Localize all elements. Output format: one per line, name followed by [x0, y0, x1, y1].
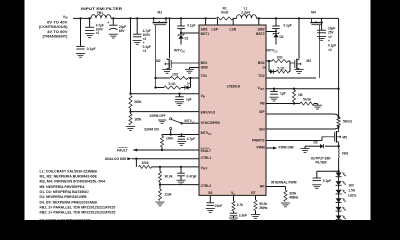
svg-text:CTRL1: CTRL1 [201, 156, 212, 160]
svg-text:6mΩ: 6mΩ [221, 10, 229, 14]
svg-text:CTRL2: CTRL2 [201, 184, 212, 188]
svg-text:D2: D2 [280, 35, 284, 39]
svg-text:(TRANSIENT): (TRANSIENT) [43, 35, 68, 39]
svg-text:1.5A: 1.5A [348, 188, 355, 192]
svg-text:4.7k: 4.7k [237, 203, 243, 207]
svg-text:100k: 100k [141, 161, 148, 165]
svg-text:165k: 165k [134, 118, 141, 122]
svg-text:M3, M4: INFINEON IPZ40N04S5L-7: M3, M4: INFINEON IPZ40N04S5L-7R4 [40, 180, 106, 184]
svg-text:SYNC/SPRD: SYNC/SPRD [201, 121, 221, 125]
svg-text:113k: 113k [165, 192, 172, 196]
svg-text:D1, D2: NEXPERIA BAT46WJ: D1, D2: NEXPERIA BAT46WJ [40, 190, 89, 194]
svg-text:4.7µF: 4.7µF [187, 137, 195, 141]
svg-text:90.9k: 90.9k [165, 175, 173, 179]
svg-text:M1, M2: NEXPERIA BUK9M42-60E: M1, M2: NEXPERIA BUK9M42-60E [40, 175, 98, 179]
svg-text:BST1: BST1 [201, 32, 210, 36]
svg-text:SW1: SW1 [201, 28, 208, 32]
svg-text:3.3nF: 3.3nF [239, 214, 247, 218]
svg-text:54.9k: 54.9k [303, 98, 311, 102]
svg-text:LT8391A: LT8391A [227, 84, 241, 88]
svg-text:D4: D4 [187, 81, 191, 85]
svg-text:FB1: 2× PARALLEL TDK MPZ2012S2: FB1: 2× PARALLEL TDK MPZ2012S221AT025 [40, 205, 116, 209]
svg-text:56mΩ: 56mΩ [343, 120, 352, 124]
svg-text:INTERNAL PWM: INTERNAL PWM [271, 180, 297, 184]
svg-text:BST2: BST2 [256, 32, 265, 36]
svg-text:×2: ×2 [328, 48, 332, 52]
svg-text:0.47µF: 0.47µF [187, 174, 197, 178]
svg-text:ISP: ISP [259, 110, 265, 114]
svg-text:63V: 63V [119, 29, 126, 33]
svg-text:TG1: TG1 [201, 74, 208, 78]
svg-text:380k: 380k [134, 100, 141, 104]
svg-text:EN/UVLO: EN/UVLO [201, 110, 216, 114]
svg-text:M1: M1 [157, 11, 162, 15]
svg-text:ANALOG DIM: ANALOG DIM [105, 157, 126, 161]
svg-text:0.1µF: 0.1µF [323, 179, 331, 183]
svg-text:100k: 100k [166, 137, 173, 141]
svg-text:LEDs: LEDs [348, 194, 356, 198]
svg-text:PWM: PWM [257, 146, 265, 150]
svg-text:5.1Ω: 5.1Ω [278, 66, 285, 70]
svg-text:ISN: ISN [259, 128, 265, 132]
svg-text:D5: D5 [263, 66, 267, 70]
svg-text:488Hz: 488Hz [289, 196, 299, 200]
svg-text:M5: NEXPERIA PMV50EPEA: M5: NEXPERIA PMV50EPEA [40, 185, 86, 189]
svg-text:(CONTINUOUS): (CONTINUOUS) [39, 25, 68, 29]
svg-text:1µF: 1µF [280, 92, 286, 96]
svg-text:10Ω: 10Ω [276, 55, 283, 59]
svg-text:LSP: LSP [212, 28, 219, 32]
svg-text:D3: D3 [314, 141, 318, 145]
svg-text:FB2: 2× PARALLEL TDK MPZ2012S1: FB2: 2× PARALLEL TDK MPZ2012S102AT025 [40, 211, 116, 215]
svg-text:1M: 1M [298, 93, 303, 97]
svg-text:D1: D1 [185, 36, 189, 40]
svg-text:PWM DIM: PWM DIM [279, 146, 294, 150]
svg-text:SSFM ON: SSFM ON [144, 127, 159, 131]
svg-text:FB2: FB2 [342, 152, 348, 156]
svg-text:FAULT: FAULT [201, 149, 211, 153]
svg-text:M3: M3 [307, 59, 312, 63]
svg-text:0.1µF: 0.1µF [187, 24, 195, 28]
svg-text:D6: EVERLIGHT PMEG2010AEB: D6: EVERLIGHT PMEG2010AEB [40, 218, 92, 220]
svg-text:SSFM OFF: SSFM OFF [149, 114, 165, 118]
svg-text:22nF: 22nF [215, 204, 222, 208]
svg-text:BG1: BG1 [201, 61, 208, 65]
svg-text:D3: NEXPERIA PMEG3010EB: D3: NEXPERIA PMEG3010EB [40, 195, 88, 199]
svg-text:10Ω: 10Ω [172, 72, 179, 76]
svg-text:D4, D5: NEXPERIA PMEG2010AEB: D4, D5: NEXPERIA PMEG2010AEB [40, 200, 98, 204]
svg-text:BG2: BG2 [258, 61, 265, 65]
svg-text:FB1: FB1 [97, 11, 103, 15]
svg-text:6V TO 40V: 6V TO 40V [47, 20, 69, 24]
svg-text:0.1µF: 0.1µF [284, 24, 292, 28]
svg-text:RP: RP [260, 185, 265, 189]
svg-text:PWMTG: PWMTG [252, 139, 265, 143]
svg-text:GND: GND [201, 66, 209, 70]
svg-text:0.1µF: 0.1µF [87, 47, 96, 51]
svg-text:16V: 16V [348, 183, 355, 187]
svg-text:FAULT: FAULT [117, 148, 127, 152]
svg-text:M5: M5 [343, 135, 348, 139]
svg-text:1µF: 1µF [186, 98, 192, 102]
svg-text:SW2: SW2 [257, 28, 264, 32]
svg-text:FB: FB [260, 102, 265, 106]
svg-text:L1: COILCRAFT XAL5030-223MEB: L1: COILCRAFT XAL5030-223MEB [40, 169, 98, 173]
svg-text:2.2µH: 2.2µH [241, 10, 250, 14]
svg-text:+: + [107, 21, 109, 25]
svg-text:M4: M4 [311, 11, 316, 15]
svg-text:×2: ×2 [143, 49, 147, 53]
svg-text:4V TO 60V: 4V TO 60V [47, 30, 69, 34]
svg-text:TG2: TG2 [258, 74, 265, 78]
svg-text:5.1Ω: 5.1Ω [169, 82, 176, 86]
svg-text:×2: ×2 [96, 31, 100, 35]
svg-text:FILTER: FILTER [316, 160, 328, 164]
svg-text:2MHz: 2MHz [259, 206, 268, 210]
svg-text:RT: RT [251, 191, 255, 195]
svg-text:M2: M2 [156, 59, 161, 63]
svg-text:LSN: LSN [230, 28, 237, 32]
